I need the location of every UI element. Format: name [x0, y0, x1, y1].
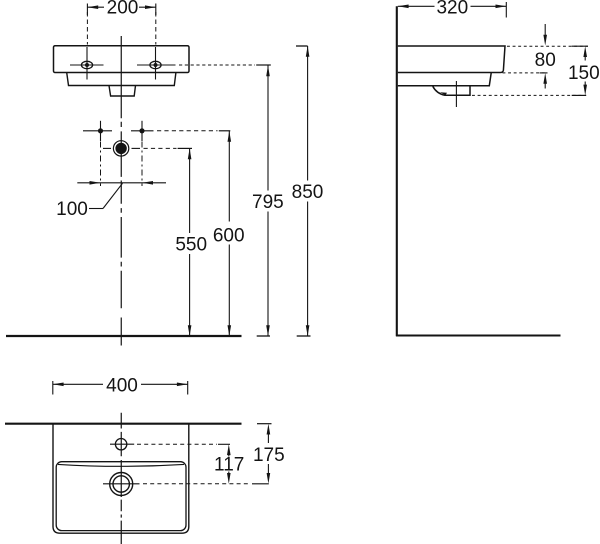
svg-text:200: 200	[107, 0, 139, 19]
front view: left bolt hole	[83, 121, 112, 141]
front view: drain trap tier	[109, 86, 136, 97]
svg-text:850: 850	[292, 182, 324, 203]
dimension 117	[218, 444, 231, 484]
reference dotted line: basin top level	[507, 45, 588, 47]
dimension 100	[77, 181, 166, 209]
dimension 150	[572, 46, 588, 95]
plan view: vertical centerline	[120, 413, 122, 544]
dimension 200	[87, 4, 155, 16]
drain reference dashes to 550 dimension	[144, 147, 177, 149]
dimension 600	[228, 131, 232, 336]
reference dotted line: apron bottom level	[503, 72, 548, 74]
plan view: outer rim outline	[53, 424, 189, 534]
bolt holes reference dashes to 600 dimension	[157, 130, 218, 132]
side view: drain centerline	[455, 81, 457, 107]
dimension 320	[398, 2, 507, 18]
svg-text:320: 320	[436, 0, 468, 19]
reference dotted line: tailpiece bottom level	[472, 94, 586, 96]
extension dashed lines for 100 dimension	[100, 142, 102, 187]
side view: curve hook at tailpiece	[440, 92, 447, 95]
drain reference dashes to 175 dimension	[143, 483, 251, 485]
side view: basin profile	[398, 46, 505, 95]
plan view: wall line	[5, 423, 242, 425]
plan view: drain outlet	[103, 473, 140, 496]
plan view: bowl back ledge curve	[58, 464, 184, 466]
floor line under front view	[6, 335, 242, 337]
svg-text:550: 550	[175, 234, 207, 255]
dimension 175	[252, 424, 272, 484]
dimension 550	[188, 148, 192, 336]
svg-text:600: 600	[213, 226, 245, 247]
svg-text:80: 80	[535, 50, 556, 71]
faucet holes centerline extension to 795 dimension	[179, 64, 255, 66]
front view: left faucet hole	[70, 47, 104, 80]
floor line under side view	[396, 334, 561, 336]
dimension 200 extension dashed lines	[86, 12, 88, 45]
front view: vertical centerline	[120, 36, 122, 346]
dimension 795	[257, 66, 270, 337]
svg-text:400: 400	[106, 376, 138, 397]
plan view: faucet hole	[110, 439, 134, 450]
svg-text:150: 150	[568, 63, 600, 84]
dimension 400	[53, 381, 188, 395]
front view: drain hole	[103, 141, 140, 156]
front view: right faucet hole	[137, 47, 176, 80]
plan view: inner bowl rounded rectangle	[56, 462, 186, 531]
front view: basin body tier	[67, 73, 176, 86]
svg-text:100: 100	[56, 199, 88, 220]
svg-text:175: 175	[253, 445, 285, 466]
svg-text:117: 117	[214, 455, 244, 476]
front view: basin rim rectangle	[54, 46, 190, 73]
dimension 80	[540, 24, 548, 89]
side view: wall line	[396, 6, 398, 336]
faucet hole reference dashes to 117 dimension	[137, 443, 217, 445]
front view: right bolt hole	[131, 121, 154, 141]
dimension 850	[296, 46, 311, 336]
svg-text:795: 795	[252, 192, 284, 213]
